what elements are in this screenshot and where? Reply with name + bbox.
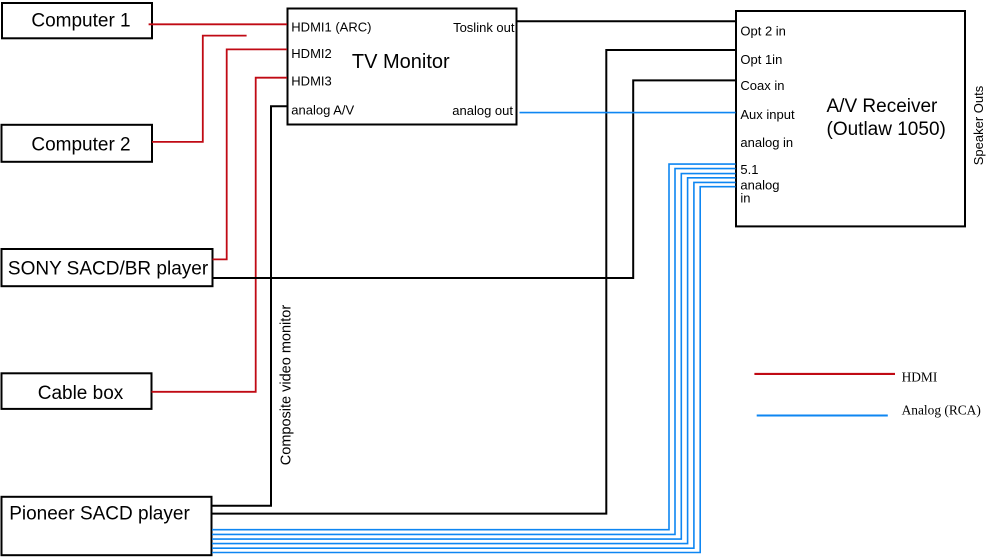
svg-text:analog in: analog in	[740, 135, 793, 150]
wire analog: TV analog out to Aux input (blue)	[520, 112, 736, 114]
wire 5.1 analog 6 (blue)	[212, 187, 736, 553]
wire 5.1 analog 4 (blue)	[212, 178, 736, 544]
svg-text:analog A/V: analog A/V	[291, 103, 354, 118]
wire 5.1 analog 2 (blue)	[212, 169, 736, 535]
box Pioneer SACD player	[2, 497, 212, 555]
svg-text:Coax in: Coax in	[740, 78, 784, 93]
legend HDMI line (red)	[754, 373, 895, 375]
wire HDMI: Computer 2 (red, dangling)	[152, 36, 247, 142]
svg-text:Analog (RCA): Analog (RCA)	[902, 403, 981, 418]
svg-text:Cable box: Cable box	[38, 383, 124, 404]
svg-text:Opt 2 in: Opt 2 in	[740, 24, 786, 39]
wire Pioneer to Opt 1in (black)	[212, 50, 736, 514]
wire HDMI: Cable box to TV HDMI3 (red)	[152, 78, 288, 392]
svg-text:Computer 1: Computer 1	[31, 11, 130, 32]
svg-text:in: in	[740, 190, 750, 205]
svg-text:HDMI3: HDMI3	[291, 74, 331, 89]
box Computer 1	[2, 3, 152, 38]
wire composite: TV analog A/V to Pioneer (black)	[212, 106, 287, 506]
wire 5.1 analog 1 (blue)	[212, 164, 736, 530]
wire SONY to Coax in (black)	[213, 80, 737, 278]
box A/V Receiver (Outlaw 1050)	[736, 11, 965, 226]
svg-text:TV Monitor: TV Monitor	[352, 51, 450, 73]
svg-text:Composite video monitor: Composite video monitor	[279, 305, 295, 466]
svg-text:HDMI: HDMI	[902, 370, 938, 385]
svg-text:Opt 1in: Opt 1in	[740, 52, 782, 67]
svg-text:Toslink out: Toslink out	[453, 20, 515, 35]
svg-text:analog out: analog out	[452, 103, 513, 118]
svg-text:5.1: 5.1	[740, 162, 758, 177]
svg-text:Pioneer SACD player: Pioneer SACD player	[9, 504, 190, 525]
svg-text:HDMI1 (ARC): HDMI1 (ARC)	[291, 20, 371, 35]
box Cable box	[2, 373, 152, 409]
legend Analog line (blue)	[757, 415, 888, 417]
box Computer 2	[2, 125, 153, 162]
wire 5.1 analog 3 (blue)	[212, 174, 736, 539]
svg-text:SONY SACD/BR player: SONY SACD/BR player	[8, 258, 209, 279]
wire HDMI: SONY to TV HDMI2 (red)	[213, 49, 288, 259]
wire 5.1 analog 5 (blue)	[212, 182, 736, 548]
svg-text:A/V Receiver: A/V Receiver	[827, 96, 939, 117]
box TV Monitor	[288, 9, 517, 125]
svg-text:(Outlaw 1050): (Outlaw 1050)	[827, 119, 946, 140]
svg-text:HDMI2: HDMI2	[291, 46, 331, 61]
box SONY SACD/BR player	[2, 249, 213, 286]
wire HDMI: Computer 1 to TV HDMI1 (red)	[149, 23, 287, 25]
svg-text:Speaker Outs: Speaker Outs	[971, 85, 986, 165]
svg-text:Aux input: Aux input	[740, 107, 795, 122]
svg-text:Computer 2: Computer 2	[31, 135, 130, 156]
wire Toslink: TV to Opt 2 in (black)	[517, 20, 736, 22]
